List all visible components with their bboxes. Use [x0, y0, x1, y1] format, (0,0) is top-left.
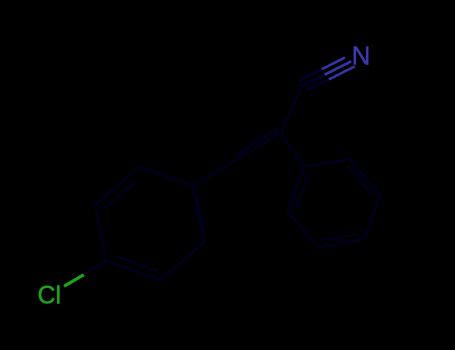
bond C1-C2 [281, 87, 301, 133]
bond to Cl (green half) [64, 275, 84, 287]
bond C3-ring1 ipso [193, 160, 237, 187]
benzene ring 2 (phenyl) outline [288, 159, 381, 247]
benzene ring 1 (4-chlorophenyl) outline [95, 167, 203, 280]
svg-text:Cl: Cl [38, 281, 62, 309]
svg-text:N: N [352, 40, 371, 70]
ring 1 inner double bond lines [103, 181, 204, 271]
bond ring1 para to Cl (dark half) [85, 261, 106, 274]
ring 2 inner double bond lines [296, 166, 373, 241]
double bond C2=C3 [234, 129, 281, 160]
triple bond C1#N dark half (near C1) [298, 69, 329, 90]
bond C2-ring2 ipso [281, 133, 304, 167]
triple bond C1#N blue half (near N) [322, 58, 355, 80]
